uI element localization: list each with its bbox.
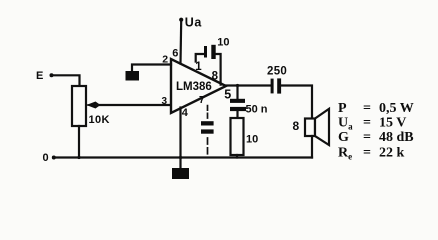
wire C3 to resistor R2 <box>236 111 238 118</box>
svg-text:8: 8 <box>293 119 300 133</box>
capacitor C3 50n bottom plate <box>230 107 246 111</box>
wire pin 6 to Ua <box>179 21 182 64</box>
ground rail wire <box>54 156 312 158</box>
junction pin4-rail <box>179 156 182 159</box>
junction pot-rail <box>77 156 80 159</box>
svg-text:7: 7 <box>199 95 205 106</box>
wire pot bottom to ground rail <box>78 126 80 158</box>
dashed wire C2 down to ground rail <box>207 138 209 157</box>
capacitor C1 10u left plate <box>204 46 207 58</box>
wire pin 2 to ground <box>132 65 171 72</box>
potentiometer P1 body <box>72 86 86 126</box>
svg-text:4: 4 <box>182 107 189 119</box>
svg-text:3: 3 <box>162 96 168 107</box>
svg-text:10K: 10K <box>89 114 110 126</box>
wire pin 3 to pot wiper <box>96 104 171 106</box>
terminal Ua <box>179 15 202 29</box>
wire speaker to ground rail <box>311 136 313 158</box>
wire pin 5 output <box>226 84 271 86</box>
dashed wire pin 7 down to C2 <box>207 106 209 121</box>
op-amp U1 LM386 <box>171 59 226 113</box>
resistor R2 body <box>231 118 244 155</box>
capacitor C3 50n top plate <box>230 99 245 103</box>
speaker LS1 <box>305 109 329 145</box>
capacitor C4 250 left plate <box>271 79 274 94</box>
capacitor C4 250 right plate <box>277 78 281 93</box>
svg-text:1: 1 <box>195 61 202 73</box>
wire E to potentiometer top <box>53 75 80 85</box>
junction output node <box>236 84 239 87</box>
ground symbol at pin 4 <box>172 158 189 180</box>
wire R2 to ground rail <box>236 155 238 158</box>
wire C4 to speaker <box>281 86 312 119</box>
ground symbol at pin 2 <box>126 71 140 81</box>
wire node down to C3 <box>236 86 238 100</box>
terminal E <box>36 70 54 82</box>
capacitor C1 10u right plate <box>211 45 215 59</box>
svg-text:E: E <box>36 70 43 82</box>
svg-text:8: 8 <box>212 70 219 82</box>
wire C1 to pin 8 <box>216 54 221 85</box>
capacitor C2 bottom plate <box>201 129 214 133</box>
wire pin 1 up to capacitor C1 <box>196 54 204 62</box>
svg-text:10: 10 <box>217 36 229 48</box>
wire pin 4 to ground rail <box>179 108 181 158</box>
wiper arrow into potentiometer <box>86 102 99 109</box>
svg-text:LM386: LM386 <box>176 81 212 93</box>
capacitor C2 top plate <box>201 121 214 125</box>
svg-text:50 n: 50 n <box>246 104 268 116</box>
terminal 0 <box>43 152 56 164</box>
svg-text:Ua: Ua <box>185 15 203 29</box>
svg-text:250: 250 <box>267 65 287 77</box>
svg-text:10: 10 <box>246 134 258 146</box>
svg-text:6: 6 <box>172 48 178 60</box>
svg-text:0: 0 <box>43 152 49 164</box>
